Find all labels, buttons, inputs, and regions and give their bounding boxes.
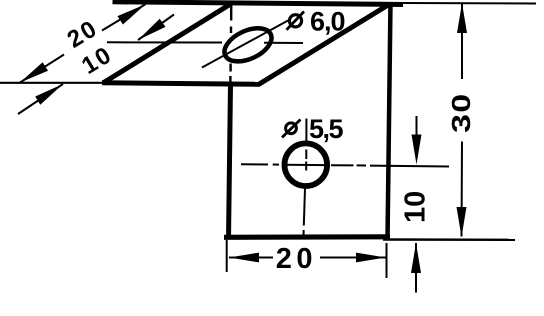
bottom 20 dimension — [229, 257, 386, 259]
svg-text:6,0: 6,0 — [310, 7, 345, 37]
front-edge extension line to left — [0, 82, 103, 84]
bottom left extension line — [226, 240, 228, 272]
oblique 10 arrowhead lower — [35, 84, 63, 105]
bottom edge of front face — [224, 234, 390, 240]
circle vertical centerline — [304, 119, 307, 237]
bottom-right horizontal extension line — [383, 238, 515, 241]
bottom right extension line — [386, 243, 388, 278]
front hole circle — [285, 143, 328, 186]
right 10 arrow bottom — [411, 243, 421, 273]
left vertical edge of front face — [229, 84, 231, 240]
oblique 20 arrowhead lower — [20, 62, 48, 82]
dia 6,0 label — [287, 7, 345, 37]
oblique 10 arrowhead upper — [138, 19, 166, 40]
svg-text:20: 20 — [276, 243, 317, 275]
left oblique edge of top face — [103, 3, 233, 84]
right 10 arrow top — [412, 135, 422, 165]
right vertical edge of front face — [388, 2, 391, 240]
top extension line toward 30 dim — [403, 2, 536, 5]
right 30 arrow bottom — [457, 207, 467, 237]
top hole ellipse — [219, 22, 276, 69]
right oblique edge of top face — [259, 5, 389, 85]
oblique 20 dimension line — [20, 4, 146, 82]
svg-text:5,5: 5,5 — [309, 114, 344, 144]
oblique 20 arrowhead upper — [118, 4, 146, 24]
right 30 dimension — [461, 4, 464, 237]
hidden dashed vertical line x=230 — [229, 6, 232, 82]
bottom 20 arrow left — [229, 253, 259, 263]
ellipse horizontal centerline — [107, 41, 303, 44]
dia 5,5 label — [282, 114, 344, 144]
bottom 20 arrow right — [356, 253, 386, 263]
circle horizontal centerline — [241, 164, 449, 166]
svg-text:30: 30 — [448, 93, 476, 133]
right 30 arrow top — [457, 3, 467, 33]
right 10 dimension — [415, 116, 418, 293]
ellipse oblique centerline / leader — [202, 21, 288, 68]
back top edge of top face (with left extension part) — [113, 2, 404, 5]
oblique 10 dimension shafts — [18, 15, 174, 115]
svg-text:10: 10 — [399, 191, 431, 223]
front edge of top face — [102, 83, 260, 85]
